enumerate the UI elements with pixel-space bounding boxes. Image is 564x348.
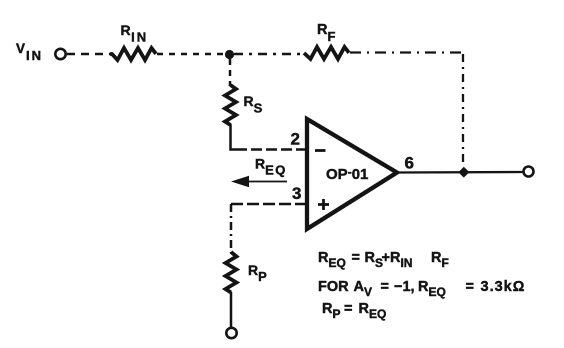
wire op-amp output to output terminal xyxy=(398,171,523,174)
wire VIN terminal to RIN (dashed) xyxy=(67,53,113,56)
wire corner to op-amp pin 2 (dashed) xyxy=(236,148,307,151)
op-amp U1 triangle OP-01 xyxy=(307,119,397,229)
node output junction xyxy=(458,167,469,178)
node bottom terminal xyxy=(226,328,236,338)
op-amp non-inverting input plus sign xyxy=(318,203,329,206)
svg-text:RP=REQ: RP=REQ xyxy=(322,301,386,321)
wire RS bottom to corner xyxy=(231,124,237,150)
wire node down to RS (dashed) xyxy=(229,59,232,86)
node junction RIN/RF/RS xyxy=(225,50,234,59)
svg-text:VIN: VIN xyxy=(16,41,43,63)
svg-text:3: 3 xyxy=(292,184,301,203)
op-amp inverting input minus sign xyxy=(315,149,326,152)
wire RIN to summing node (dashed) xyxy=(157,53,226,56)
wire RF to feedback corner (dash-dot) xyxy=(350,51,465,53)
resistor RIN xyxy=(110,48,156,60)
svg-text:6: 6 xyxy=(405,154,414,173)
wire op-amp pin 3 to left corner (dashed) xyxy=(231,203,307,206)
wire node to RF (dash-dot) xyxy=(234,53,306,56)
svg-text:RF: RF xyxy=(317,22,335,44)
wire RP to bottom terminal xyxy=(230,292,233,328)
resistor RS xyxy=(225,85,236,125)
svg-text:FORAV=−1,REQ=3.3kΩ: FORAV=−1,REQ=3.3kΩ xyxy=(318,279,525,299)
svg-text:REQ: REQ xyxy=(255,156,287,178)
svg-text:REQ=RS+RINRF: REQ=RS+RINRF xyxy=(318,250,449,270)
node output terminal xyxy=(524,167,534,177)
wire pin3 corner vertical down to RP (dash-dot) xyxy=(230,204,233,253)
svg-text:RS: RS xyxy=(244,93,263,116)
svg-text:2: 2 xyxy=(291,130,300,149)
wire feedback vertical down to output node (dash-dot) xyxy=(462,54,464,167)
arrow REQ pointing left xyxy=(246,181,287,183)
node VIN input terminal xyxy=(55,49,65,59)
resistor RP xyxy=(226,252,237,293)
svg-text:OP-01: OP-01 xyxy=(326,165,368,183)
resistor RF xyxy=(304,47,349,59)
svg-text:RIN: RIN xyxy=(121,22,149,45)
svg-text:RP: RP xyxy=(248,262,267,284)
